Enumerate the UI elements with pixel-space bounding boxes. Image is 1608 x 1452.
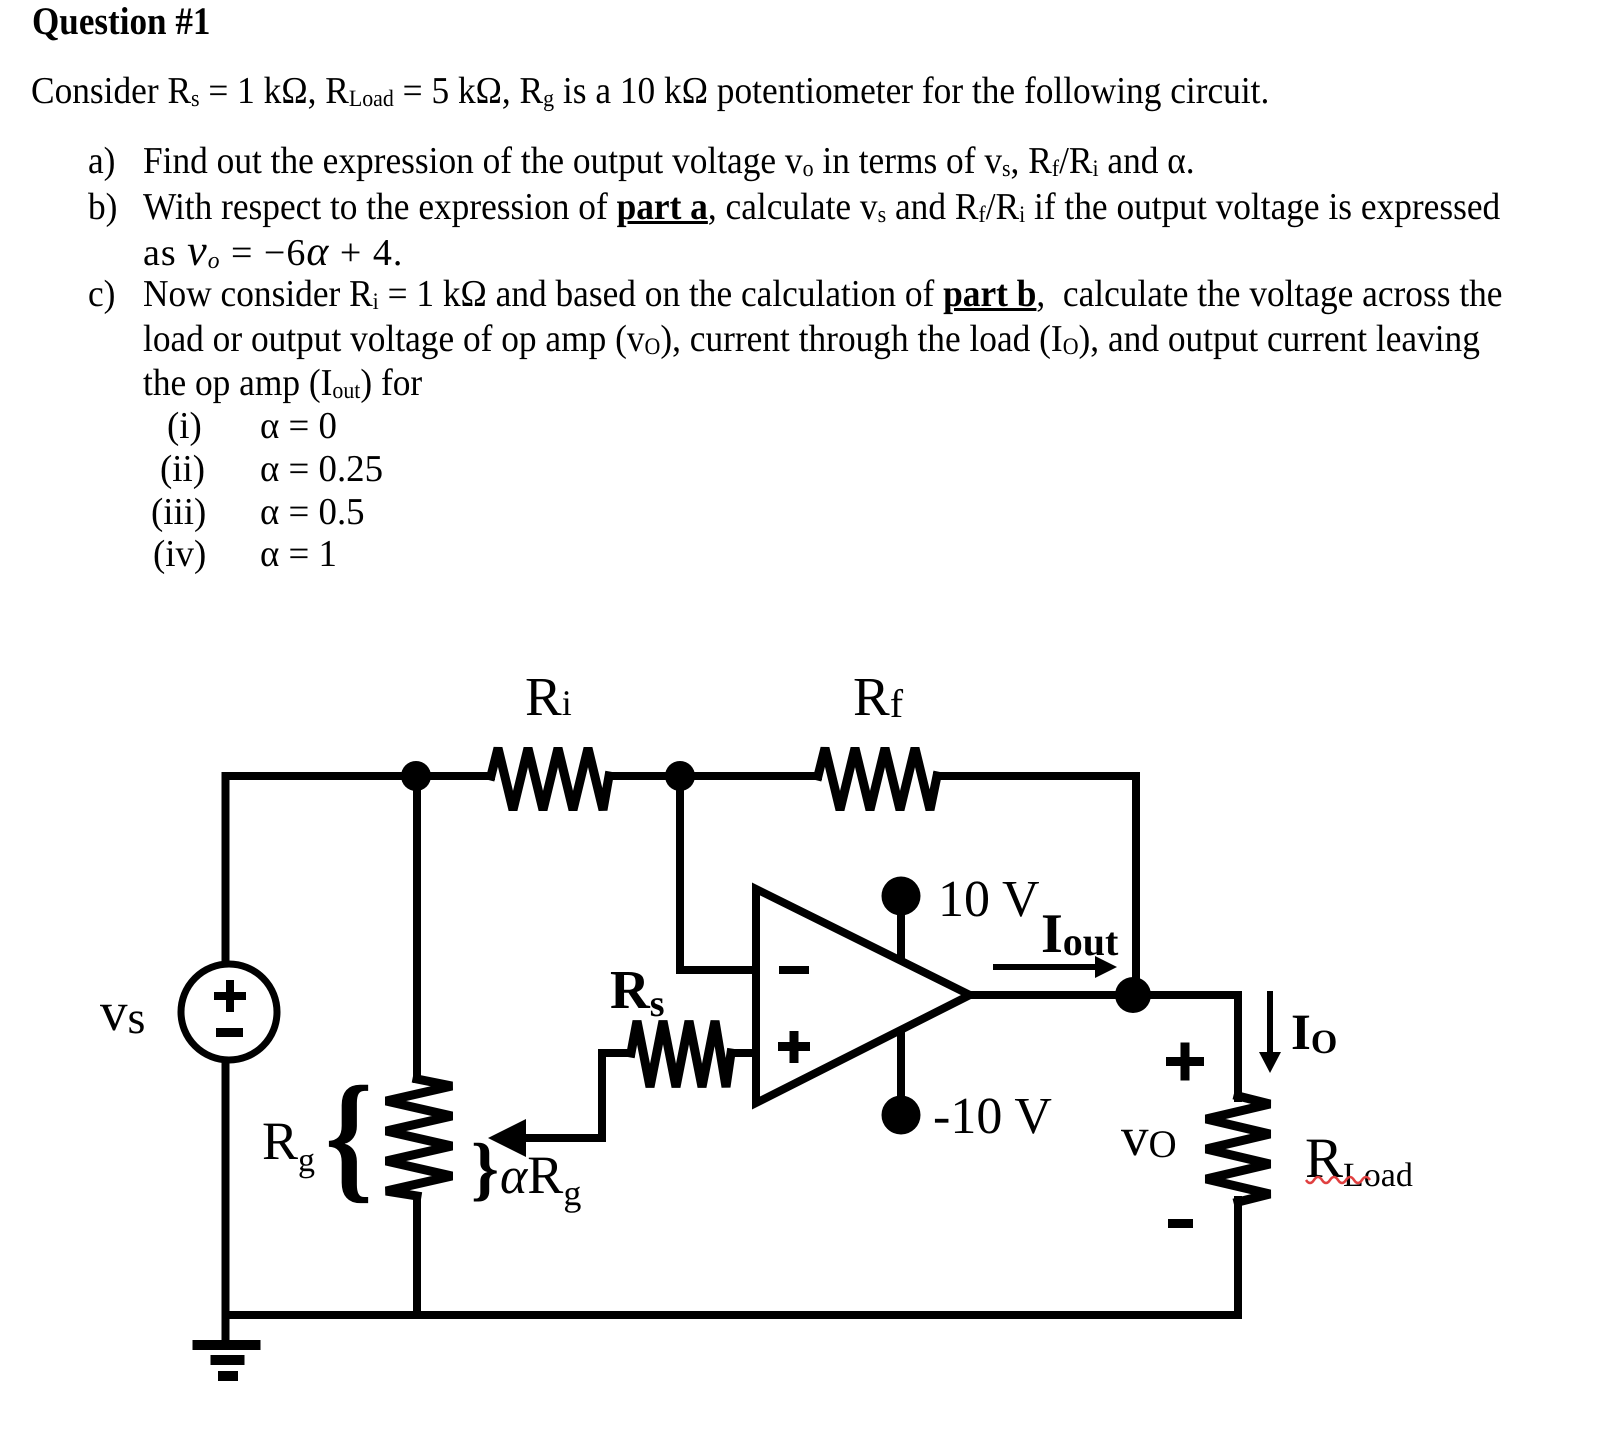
wire top-left from source to node A: [226, 776, 417, 963]
red spell squiggle: [1306, 1177, 1370, 1183]
svg-text:Iout: Iout: [1041, 903, 1119, 965]
svg-text:{: {: [325, 1057, 373, 1215]
item c: [88, 275, 115, 313]
wire Ri to node B: [609, 772, 680, 780]
wire Rf to output node (feedback): [937, 776, 1136, 994]
output node junction dot: [1115, 977, 1151, 1013]
op-amp U1: [756, 889, 970, 1103]
wire RLoad to bottom rail: [1234, 1200, 1242, 1315]
wire node B to Rf: [680, 772, 818, 780]
title: [32, 3, 210, 41]
ground: [193, 1340, 261, 1350]
svg-text:Rg: Rg: [262, 1111, 315, 1179]
svg-text:Rs: Rs: [610, 959, 665, 1025]
svg-text:Ri: Ri: [525, 666, 572, 727]
paragraph: [31, 72, 1269, 110]
svg-text:-10 V: -10 V: [933, 1088, 1052, 1145]
plus sign load: [1166, 1057, 1204, 1066]
item b: [88, 188, 117, 226]
resistor Rf: [818, 748, 937, 810]
Iout arrow: [993, 964, 1097, 970]
bottom rail wire: [226, 1311, 1239, 1319]
wire source bottom to ground: [222, 1063, 230, 1344]
node B junction dot: [665, 761, 695, 791]
node A junction dot: [401, 761, 431, 791]
wire Rs to non-inverting input: [731, 1049, 757, 1057]
op-amp minus sign: [779, 966, 809, 974]
wire op-amp output to load corner: [962, 995, 1238, 1098]
svg-text:Rf: Rf: [853, 666, 904, 727]
positive supply pin wire: [897, 900, 905, 968]
negative supply pin wire: [897, 1024, 905, 1112]
wiper arrow into Rg: [488, 1119, 526, 1157]
positive supply terminal dot: [882, 877, 921, 916]
wire node A to Ri: [416, 772, 491, 780]
resistor Ri: [491, 748, 609, 810]
svg-text:10 V: 10 V: [938, 871, 1040, 928]
svg-text:}: }: [471, 1130, 499, 1208]
svg-text:αRg: αRg: [500, 1145, 581, 1213]
voltage source vs: [181, 964, 277, 1060]
item a: [88, 142, 115, 180]
wire node A down to potentiometer Rg: [413, 776, 421, 1079]
svg-text:IO: IO: [1291, 1005, 1337, 1061]
wire node B down to inverting input: [680, 776, 757, 970]
resistor Rs: [631, 1021, 731, 1087]
negative supply terminal dot: [882, 1096, 921, 1135]
list i-iv: [167, 407, 202, 445]
svg-text:vO: vO: [1121, 1106, 1177, 1167]
potentiometer resistor Rg: [386, 1079, 452, 1196]
Io arrow: [1267, 991, 1273, 1055]
svg-text:vs: vs: [100, 981, 145, 1043]
wire Rg to bottom rail: [413, 1196, 421, 1315]
wire wiper to Rs branch: [524, 1053, 631, 1138]
op-amp plus sign: [778, 1042, 810, 1051]
minus sign load: [1168, 1219, 1193, 1228]
resistor RLoad: [1206, 1096, 1270, 1202]
